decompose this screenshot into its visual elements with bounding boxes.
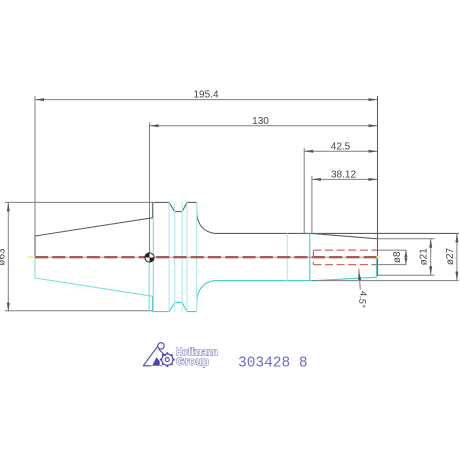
svg-text:Group: Group — [176, 356, 209, 368]
svg-text:42.5: 42.5 — [331, 141, 351, 152]
Hoffmann Group logo mark — [143, 343, 175, 367]
projection line flange right — [196, 202, 198, 311]
svg-text:4.5°: 4.5° — [356, 290, 369, 308]
leader 4.5deg — [356, 269, 369, 309]
svg-text:130: 130 — [252, 116, 269, 127]
bore dia8 hidden outline left — [312, 250, 314, 265]
dimension dia27 — [312, 233, 459, 280]
flange top with V-groove — [152, 202, 197, 211]
dimension 130 — [150, 116, 378, 258]
svg-text:ø27: ø27 — [445, 247, 456, 265]
svg-text:195.4: 195.4 — [193, 90, 218, 101]
svg-text:ø21: ø21 — [419, 248, 430, 266]
svg-text:38.12: 38.12 — [331, 169, 356, 180]
projection line body ring left — [286, 233, 288, 280]
tip end face — [377, 96, 379, 276]
dimension 38.12 — [312, 169, 378, 233]
part number 303428 8 — [238, 356, 308, 372]
mirror flange bottom with V-groove — [152, 302, 197, 311]
body top edge and dia27 top extension — [215, 232, 459, 234]
bore dia8 hidden outline top — [313, 249, 377, 251]
dimension dia21 — [378, 239, 435, 275]
mirror nose taper bottom edge — [312, 277, 377, 281]
nose taper top edge 4.5deg — [312, 233, 378, 238]
gauge point marker — [145, 253, 154, 262]
mirror flange left lower edge — [152, 296, 154, 311]
svg-text:ø63: ø63 — [0, 248, 8, 266]
yellow centerline end nub right — [374, 256, 380, 258]
Hoffmann Group logo text — [176, 347, 218, 369]
mirror taper bottom edge — [35, 278, 153, 296]
mirror left face lower — [34, 257, 36, 278]
projection line body ring right — [309, 233, 311, 280]
taper top edge — [35, 218, 153, 236]
dimension 42.5 — [304, 141, 377, 233]
projection line groove left top — [168, 202, 170, 311]
dimension dia63 — [0, 202, 153, 311]
mirror tip face lower — [376, 258, 378, 278]
flange left upper edge — [152, 202, 154, 218]
red dashed centerline — [35, 256, 377, 258]
projection line groove bottom left — [174, 202, 176, 311]
svg-text:ø8: ø8 — [392, 251, 403, 263]
svg-text:303428 8: 303428 8 — [238, 356, 308, 372]
projection line groove right top — [186, 202, 188, 311]
flange-to-body fillet top — [197, 202, 215, 233]
yellow centerline end nub left — [28, 256, 36, 258]
projection line groove bottom right — [181, 202, 183, 311]
projection line flange left — [152, 202, 154, 311]
bore dia8 hidden outline bottom — [313, 264, 377, 266]
projection line below gauge point — [148, 258, 150, 312]
centerline thin gray underlay — [35, 256, 377, 258]
mirror body bottom edge — [215, 280, 312, 282]
dimension dia8 — [378, 250, 408, 265]
left face upper — [34, 236, 36, 258]
dimension 195.4 — [35, 90, 378, 236]
mirror fillet bottom — [197, 281, 215, 312]
